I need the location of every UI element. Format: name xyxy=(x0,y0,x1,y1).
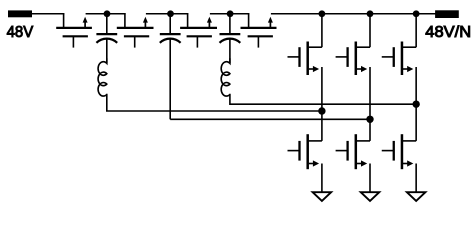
svg-text:48V: 48V xyxy=(7,24,34,41)
svg-text:48V/N: 48V/N xyxy=(425,24,471,41)
